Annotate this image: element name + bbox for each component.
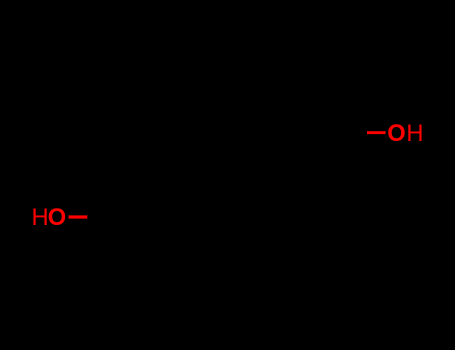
- svg-text:H: H: [32, 205, 49, 231]
- svg-text:H: H: [406, 121, 423, 147]
- svg-text:O: O: [387, 121, 405, 147]
- bond O-C (left, red oxygen half): [69, 215, 88, 218]
- label OH (right hydroxyl oxygen): [387, 121, 423, 147]
- svg-text:O: O: [48, 205, 66, 231]
- bond C-O (right, red oxygen half): [367, 131, 386, 134]
- label HO (left hydroxyl oxygen): [32, 205, 67, 231]
